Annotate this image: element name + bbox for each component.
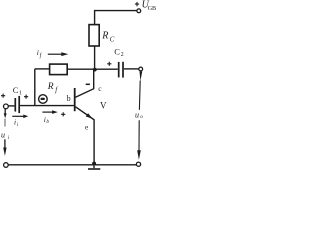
resistor RC (89, 25, 99, 46)
svg-text:o: o (140, 114, 143, 120)
transistor V collector line (76, 70, 94, 98)
label C2 (114, 47, 124, 58)
label Rf (47, 82, 58, 94)
transistor V emitter arrow (86, 113, 93, 119)
label i_i (14, 118, 19, 129)
svg-text:C: C (114, 47, 120, 57)
svg-text:R: R (101, 31, 108, 42)
terminal +UGB (137, 9, 141, 13)
wire C2 to output terminal (124, 68, 139, 70)
arrow i_i (12, 115, 23, 117)
wire Rf left riser (34, 69, 36, 106)
node emitter-bottom junction (92, 162, 96, 166)
minus sign near collector (86, 83, 90, 85)
plus sign right of C1 (24, 95, 28, 99)
node circled-minus annotation (39, 95, 48, 104)
svg-text:2: 2 (121, 52, 124, 58)
svg-text:R: R (47, 82, 54, 92)
plus sign near base (61, 112, 65, 116)
label C1 (13, 85, 22, 97)
terminal input top (4, 104, 9, 109)
svg-text:b: b (67, 94, 71, 103)
wire top rail (95, 11, 137, 25)
arrow u_o upper wedge (140, 71, 143, 81)
label UGB (142, 0, 157, 12)
svg-text:1: 1 (19, 91, 22, 97)
arrow i_f (48, 53, 62, 55)
ground (93, 166, 95, 169)
arrow u_i upper stub (4, 109, 6, 114)
svg-text:f: f (40, 52, 43, 59)
transistor V base bar (74, 88, 76, 111)
plus sign input top (1, 94, 5, 98)
arrow i_b (42, 111, 52, 113)
plus sign at C2 (107, 62, 111, 66)
node collector-top junction (93, 68, 97, 72)
svg-text:u: u (135, 110, 139, 119)
label i_f (37, 48, 43, 59)
label RC (101, 31, 114, 44)
svg-text:i: i (8, 135, 10, 141)
label u_i (1, 131, 10, 142)
svg-text:e: e (85, 122, 89, 131)
svg-text:C: C (110, 35, 115, 43)
svg-text:V: V (100, 100, 107, 110)
svg-text:u: u (1, 131, 5, 140)
arrow u_i lower (4, 139, 6, 148)
svg-text:i: i (37, 48, 39, 57)
terminal output bottom (136, 162, 140, 166)
svg-text:c: c (98, 84, 102, 93)
wire input to C1 (8, 105, 14, 107)
label i_b (44, 115, 50, 125)
node output top terminal (139, 67, 143, 71)
capacitor C1 (14, 98, 16, 112)
terminal input bottom (4, 163, 9, 168)
svg-text:i: i (14, 118, 16, 127)
svg-text:GB: GB (148, 5, 157, 12)
resistor Rf (50, 64, 68, 75)
wire feedback horizontal (35, 68, 50, 70)
wire Rf to C2 (67, 68, 118, 70)
plus sign at UGB (135, 2, 139, 6)
transistor V emitter line (76, 107, 95, 164)
svg-text:i: i (17, 122, 19, 128)
svg-text:f: f (55, 86, 58, 94)
svg-text:C: C (13, 85, 19, 95)
capacitor C2 (118, 62, 120, 78)
label u_o (135, 110, 143, 120)
wire C1 to base (20, 105, 74, 107)
wire bottom rail (8, 164, 136, 166)
wire RC bottom to node (94, 46, 96, 69)
arrow u_o lower (138, 120, 140, 150)
svg-text:b: b (46, 119, 49, 125)
